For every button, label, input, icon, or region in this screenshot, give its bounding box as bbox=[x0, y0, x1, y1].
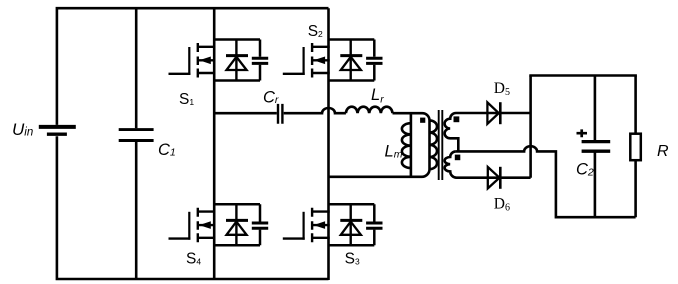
svg-text:D5: D5 bbox=[494, 80, 510, 98]
svg-text:C2: C2 bbox=[576, 160, 594, 178]
svg-text:S3: S3 bbox=[345, 251, 360, 268]
svg-text:R: R bbox=[657, 143, 669, 160]
svg-text:C1: C1 bbox=[158, 141, 176, 159]
svg-text:S1: S1 bbox=[179, 91, 194, 108]
svg-text:Lm: Lm bbox=[385, 142, 403, 160]
svg-text:Uin: Uin bbox=[12, 120, 33, 139]
svg-text:Lr: Lr bbox=[371, 86, 384, 105]
svg-text:Cr: Cr bbox=[263, 88, 279, 106]
svg-text:S2: S2 bbox=[308, 23, 323, 40]
svg-text:D6: D6 bbox=[494, 196, 510, 214]
svg-text:S4: S4 bbox=[186, 251, 201, 268]
